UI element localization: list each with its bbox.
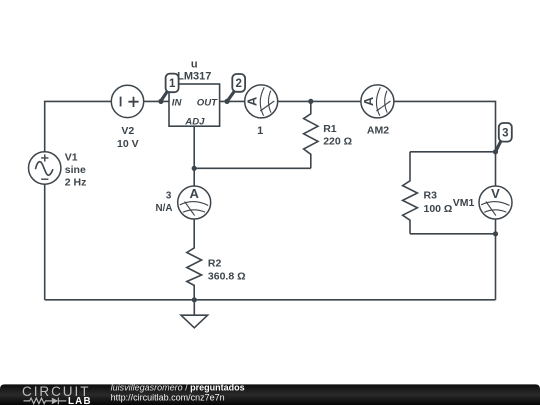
svg-text:2 Hz: 2 Hz <box>65 177 87 189</box>
wire LM317 OUT to ammeter 1 <box>220 100 245 102</box>
svg-text:VM1: VM1 <box>453 197 475 209</box>
ground <box>181 300 208 328</box>
wire bottom rail of R3/VM1 <box>410 233 496 235</box>
wire VM1 bottom down to bottom rail <box>495 219 497 300</box>
svg-text:IN: IN <box>172 97 183 108</box>
wire V2 to LM317 IN <box>144 100 169 102</box>
junction node at flag 3 <box>493 149 498 154</box>
wire V1 bottom down <box>44 184 46 300</box>
svg-text:2: 2 <box>235 78 241 90</box>
voltage source V1 body <box>29 152 61 184</box>
svg-text:V1: V1 <box>65 151 78 163</box>
footer bar <box>0 384 540 405</box>
resistor R2 <box>187 219 202 300</box>
node flag 1 <box>166 74 179 93</box>
svg-text:R2: R2 <box>208 258 222 270</box>
node flag 3 <box>499 123 512 142</box>
voltage source V2 body <box>111 85 143 117</box>
svg-text:ADJ: ADJ <box>184 117 205 128</box>
wire top-left corner from V1 up to V2 <box>45 101 112 152</box>
junction node at ground <box>192 297 197 302</box>
LM317 U1 box <box>169 84 220 126</box>
svg-text:LAB: LAB <box>68 396 92 405</box>
svg-text:sine: sine <box>65 164 86 176</box>
junction node at VM1 bottom <box>493 231 498 236</box>
ammeter 3 <box>178 186 211 219</box>
svg-text:u: u <box>191 58 198 70</box>
V1 plus sign <box>41 154 48 161</box>
node flag 3 pointer <box>496 141 501 152</box>
svg-text:1: 1 <box>169 78 176 90</box>
wire top rail of R3/VM1 <box>410 151 496 153</box>
svg-text:V2: V2 <box>121 125 134 137</box>
logo resistor-diode line <box>24 398 67 405</box>
svg-text:luisvillegasromero / preguntad: luisvillegasromero / preguntados <box>111 383 245 393</box>
svg-text:V: V <box>491 186 500 201</box>
svg-text:100 Ω: 100 Ω <box>424 203 453 215</box>
wire AM2 to right corner down to VM1 <box>394 101 496 186</box>
svg-text:A: A <box>190 186 200 201</box>
svg-text:1: 1 <box>257 125 263 137</box>
resistor R1 <box>304 101 318 168</box>
V2 plus sign <box>128 97 138 107</box>
node flag 1 pointer <box>161 91 168 101</box>
svg-text:3: 3 <box>502 128 508 140</box>
svg-text:A: A <box>361 96 376 106</box>
logo diode triangle <box>52 398 58 405</box>
svg-text:http://circuitlab.com/cnz7e7n: http://circuitlab.com/cnz7e7n <box>111 392 225 402</box>
svg-text:N/A: N/A <box>156 203 173 214</box>
ammeter AM2 <box>361 85 394 118</box>
node flag 2 pointer <box>227 91 234 101</box>
svg-text:10 V: 10 V <box>117 138 139 150</box>
svg-text:AM2: AM2 <box>367 124 389 136</box>
junction node at OUT pin <box>224 99 229 104</box>
svg-text:3: 3 <box>166 191 172 202</box>
wire LM317 ADJ down to ammeter 3 <box>193 126 195 186</box>
svg-text:LM317: LM317 <box>177 71 211 83</box>
wire ADJ node to R1 bottom <box>194 167 311 169</box>
V1 sine wave <box>36 162 53 176</box>
svg-text:R1: R1 <box>323 123 337 135</box>
svg-text:A: A <box>245 96 260 106</box>
junction node at ADJ <box>192 166 197 171</box>
svg-text:360.8 Ω: 360.8 Ω <box>208 271 246 283</box>
ammeter 1 <box>245 85 278 118</box>
V2 minus terminal bar <box>120 97 122 107</box>
svg-text:R3: R3 <box>424 190 438 202</box>
junction node at IN pin <box>158 99 163 104</box>
wire bottom rail <box>45 299 496 301</box>
svg-text:220 Ω: 220 Ω <box>323 136 352 148</box>
voltmeter VM1 <box>479 186 512 219</box>
wire ammeter 1 to AM2 <box>278 100 362 102</box>
V1 minus sign <box>41 178 48 180</box>
resistor R3 <box>403 152 418 234</box>
node flag 2 <box>232 74 245 92</box>
svg-text:OUT: OUT <box>197 97 218 108</box>
junction node at R1 top <box>308 99 313 104</box>
